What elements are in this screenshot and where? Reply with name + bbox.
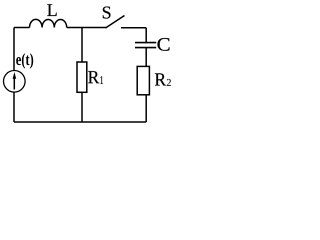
inductor L	[30, 19, 67, 27]
wire R1 branch upper (node to R1)	[81, 28, 83, 63]
label C	[157, 38, 169, 51]
resistor R1	[77, 62, 87, 92]
wire right rail upper (corner down to capacitor)	[145, 28, 147, 43]
label S	[103, 6, 111, 18]
wire R2 to bottom rail	[145, 95, 147, 122]
source arrow shaft	[13, 77, 15, 90]
wire bottom rail	[14, 121, 146, 123]
wire top rail left segment	[14, 27, 30, 29]
source e(t) circle	[4, 71, 26, 93]
source arrow head	[13, 72, 17, 79]
wire capacitor to R2	[145, 48, 147, 67]
wire top rail middle segment (inductor to switch pivot, through R1 node)	[67, 27, 106, 29]
wire top rail right segment (switch contact to corner)	[121, 27, 146, 29]
wire R1 to bottom rail	[81, 92, 83, 122]
wire left rail upper	[13, 28, 15, 71]
label R1	[88, 71, 103, 84]
capacitor C plates	[135, 43, 156, 48]
label L	[47, 4, 56, 16]
label e(t)	[16, 53, 33, 68]
switch S blade	[106, 16, 125, 29]
label R2	[155, 73, 171, 86]
wire left rail lower	[13, 92, 15, 122]
resistor R2	[137, 66, 149, 94]
